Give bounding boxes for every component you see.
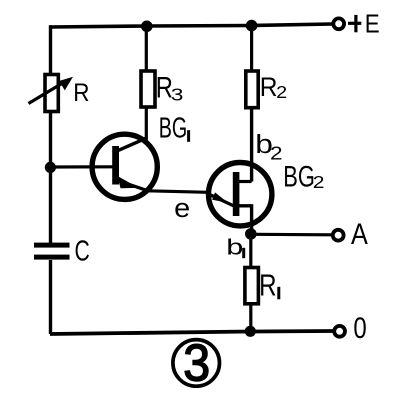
wire left top: [49, 25, 52, 75]
wire base BG1: [50, 165, 113, 168]
figure number 3: [173, 334, 220, 392]
svg-text:2: 2: [313, 172, 325, 192]
svg-text:3: 3: [183, 334, 210, 392]
node junction top R3: [141, 21, 153, 33]
terminal +E: [333, 18, 344, 29]
svg-text:R: R: [260, 73, 278, 102]
svg-text:3: 3: [171, 85, 184, 104]
wire R1 bottom: [249, 304, 252, 332]
svg-text:A: A: [351, 217, 368, 251]
label R1: [259, 268, 279, 303]
wire C top: [49, 167, 52, 243]
svg-text:2: 2: [276, 83, 287, 103]
label BG1: [159, 113, 189, 145]
svg-text:C: C: [75, 235, 90, 267]
transistor BG2 (UJT): [207, 163, 272, 235]
wire R3 top: [145, 26, 148, 72]
arrow of variable resistor R: [29, 77, 74, 104]
resistor R3: [141, 71, 155, 107]
svg-text:BG: BG: [283, 159, 315, 193]
label +E: [348, 10, 380, 39]
node junction top R2: [246, 20, 258, 32]
label b2: [255, 130, 282, 164]
wire C bottom: [49, 260, 52, 334]
node base of BG1: [45, 162, 56, 173]
wire to terminal A: [251, 233, 332, 237]
resistor R1: [245, 268, 259, 304]
svg-text:R: R: [73, 79, 89, 107]
node junction bottom R1: [245, 326, 256, 337]
resistor R (variable): [45, 75, 58, 112]
node b1 junction: [245, 228, 257, 240]
svg-text:BG: BG: [159, 113, 187, 145]
label R2: [260, 73, 287, 103]
wire bottom rail: [50, 331, 333, 334]
wire R1 top: [249, 234, 252, 268]
terminal 0: [334, 326, 345, 337]
svg-text:E: E: [365, 10, 380, 39]
terminal A: [333, 230, 344, 241]
label b1: [226, 235, 243, 260]
label R3: [156, 71, 184, 105]
svg-text:R: R: [259, 268, 276, 303]
svg-text:2: 2: [270, 143, 283, 164]
label BG2: [283, 159, 324, 193]
wire R3 bottom to BG1 collector: [145, 107, 148, 140]
wire R bottom: [49, 112, 52, 169]
wire emitter BG1 to BG2: [148, 191, 208, 193]
svg-text:0: 0: [353, 310, 366, 344]
wire R2 top: [250, 26, 253, 73]
resistor R2: [246, 71, 258, 108]
capacitor C: [34, 243, 70, 260]
transistor BG1: [92, 134, 157, 199]
svg-text:b: b: [226, 235, 243, 260]
wire R2 bottom to BG2 b2: [250, 108, 253, 182]
wire top rail: [50, 24, 332, 27]
svg-text:e: e: [174, 193, 190, 223]
